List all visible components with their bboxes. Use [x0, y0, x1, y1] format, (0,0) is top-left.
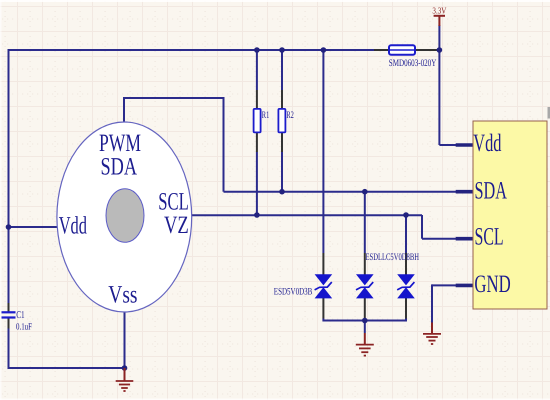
ground (TVS bus): [356, 333, 374, 356]
junction R1-SCL: [254, 212, 260, 218]
svg-text:3.3V: 3.3V: [432, 6, 446, 16]
TVS diode D1: [315, 274, 333, 298]
capacitor C1: [2, 312, 16, 317]
junction Vss-ground: [122, 365, 128, 371]
svg-text:Vdd: Vdd: [473, 130, 502, 157]
wire TVS2 to bus: [364, 319, 366, 322]
pin TVS1 bottom: [322, 298, 324, 319]
svg-text:0.1uF: 0.1uF: [16, 323, 32, 333]
pin stub Vdd: [456, 143, 473, 147]
wire PWM up from ellipse: [123, 98, 125, 122]
pin R1 top: [256, 90, 258, 109]
wire bottom horizontal to Vss ground: [9, 367, 125, 369]
white left strip: [0, 0, 2, 400]
TVS diode D3: [397, 274, 415, 298]
svg-text:Vss: Vss: [108, 282, 137, 309]
svg-text:R2: R2: [286, 110, 294, 121]
junction bus-ground: [362, 318, 368, 324]
wire down to SDA row: [223, 97, 225, 192]
wire R1 bottom to SCL row: [256, 152, 258, 215]
scrollbar fragment right edge: [548, 107, 550, 119]
pin fuse right: [414, 49, 439, 51]
wire R1 top: [256, 50, 258, 90]
wire TVS3 vertical: [405, 215, 407, 253]
wire Vdd to ellipse: [9, 226, 59, 228]
wire PWM horizontal: [123, 97, 224, 99]
connector/IC U2 (yellow block): [473, 121, 547, 309]
wire left vertical lower: [8, 318, 10, 369]
junction TVS2-SDA: [362, 189, 368, 195]
junction R2-SDA: [279, 189, 285, 195]
svg-text:GND: GND: [474, 271, 510, 298]
pin R2 bottom: [281, 133, 283, 153]
wire Vss drop: [124, 312, 126, 369]
svg-text:SMD0603-020Y: SMD0603-020Y: [389, 58, 437, 69]
sensor U1 body (ellipse): [57, 122, 192, 312]
wire SCL row from ellipse: [191, 214, 422, 216]
wire R2 bottom to SDA row: [281, 152, 283, 192]
pin R2 top: [281, 90, 283, 109]
pin stub SDA: [456, 190, 473, 194]
ground (Vss net): [116, 368, 134, 391]
svg-text:Vdd: Vdd: [59, 213, 88, 240]
pin TVS3 bottom: [405, 298, 407, 319]
svg-text:ESDLLC5V0D8BH: ESDLLC5V0D8BH: [366, 252, 420, 263]
pin TVS2 top: [364, 253, 366, 275]
sensor U1 rotor (gray circle): [106, 189, 144, 243]
junction top-3.3V: [437, 47, 443, 53]
pin stub SCL: [456, 237, 473, 241]
wire TVS3 to bus: [405, 319, 407, 322]
svg-text:SCL: SCL: [475, 224, 504, 251]
junction top-TVS1: [321, 47, 327, 53]
svg-text:SDA: SDA: [101, 154, 138, 181]
pin TVS2 bottom: [364, 298, 366, 319]
wire SDA row: [224, 191, 457, 193]
pin TVS1 top: [322, 253, 324, 275]
wire 3.3V vertical: [438, 25, 440, 145]
wire GND pin: [432, 284, 456, 286]
svg-text:VZ: VZ: [164, 212, 189, 239]
ground (GND pin): [423, 323, 441, 345]
wire TVS1 vertical: [322, 50, 324, 253]
wire SCL down jog: [421, 215, 423, 239]
wire to Vdd pin: [439, 144, 456, 146]
wire SCL to pin: [422, 238, 456, 240]
pin stub GND: [456, 284, 473, 288]
wire TVS1 to bus: [322, 319, 324, 322]
pin TVS3 top: [405, 253, 407, 275]
pin C1 bottom: [8, 318, 10, 328]
white bottom strip: [0, 399, 550, 400]
wire top 3.3V net: [9, 49, 375, 51]
wire GND drop: [431, 284, 433, 322]
junction left-Vdd: [6, 224, 12, 230]
power 3.3V symbol: [434, 16, 445, 26]
junction TVS3-SCL: [403, 212, 409, 218]
wire TVS2 vertical: [364, 192, 366, 253]
junction top-R2: [279, 47, 285, 53]
svg-text:R1: R1: [262, 110, 270, 121]
wire TVS bottom bus: [323, 320, 406, 322]
wire left vertical upper: [8, 49, 10, 312]
pin fuse left: [374, 49, 390, 51]
resistor R2: [278, 109, 285, 132]
fuse through line: [390, 49, 414, 51]
wire TVS ground stem: [364, 321, 366, 334]
white top strip: [0, 0, 550, 2]
svg-text:SDA: SDA: [475, 177, 507, 204]
TVS diode D2: [356, 274, 374, 298]
svg-text:C1: C1: [16, 310, 25, 321]
junction top-R1: [254, 47, 260, 53]
pin C1 top: [8, 303, 10, 312]
wire R2 top: [281, 50, 283, 90]
pin R1 bottom: [256, 133, 258, 153]
svg-text:ESD5V0D3B: ESD5V0D3B: [274, 287, 313, 298]
fuse F1 body: [389, 45, 415, 55]
resistor R1: [254, 109, 261, 132]
